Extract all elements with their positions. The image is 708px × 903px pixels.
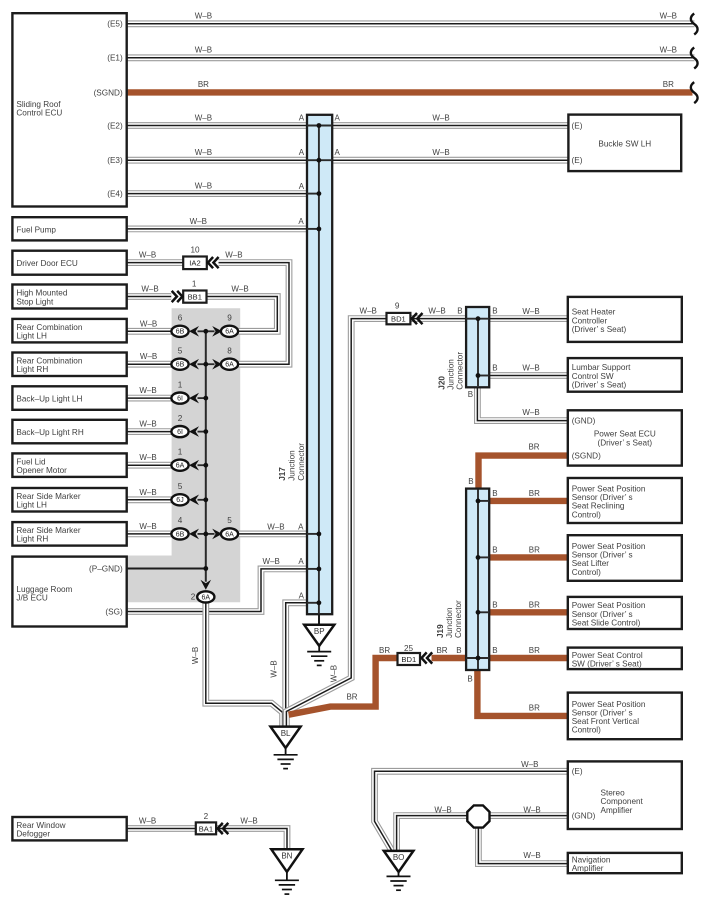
svg-text:A: A	[299, 591, 305, 600]
svg-text:(E4): (E4)	[107, 190, 123, 199]
svg-text:2: 2	[204, 812, 209, 821]
svg-text:Junction: Junction	[288, 450, 297, 481]
svg-text:(Driver’ s Seat): (Driver’ s Seat)	[572, 325, 627, 334]
svg-text:A: A	[298, 522, 304, 531]
svg-text:J17: J17	[278, 467, 287, 481]
svg-text:B: B	[457, 307, 462, 316]
svg-text:W–B: W–B	[523, 805, 540, 814]
svg-text:(Driver’ s Seat): (Driver’ s Seat)	[572, 380, 627, 389]
svg-text:W–B: W–B	[432, 148, 449, 157]
svg-text:6A: 6A	[225, 362, 234, 369]
svg-text:5: 5	[178, 482, 183, 491]
svg-text:(E2): (E2)	[107, 121, 123, 130]
svg-text:W–B: W–B	[140, 352, 157, 361]
svg-text:5: 5	[227, 516, 232, 525]
svg-text:Light RH: Light RH	[16, 535, 48, 544]
svg-text:W–B: W–B	[523, 851, 540, 860]
svg-text:9: 9	[395, 302, 400, 311]
svg-text:(E): (E)	[572, 156, 583, 165]
svg-text:W–B: W–B	[195, 12, 212, 21]
svg-text:B: B	[492, 546, 497, 555]
svg-text:6B: 6B	[176, 329, 185, 336]
svg-text:W–B: W–B	[191, 647, 200, 664]
svg-text:1: 1	[178, 447, 183, 456]
svg-text:W–B: W–B	[190, 217, 207, 226]
svg-text:SW (Driver’ s Seat): SW (Driver’ s Seat)	[572, 660, 642, 669]
svg-text:Fuel Pump: Fuel Pump	[16, 225, 56, 234]
svg-text:W–B: W–B	[195, 46, 212, 55]
svg-text:B: B	[468, 390, 473, 399]
svg-text:Connector: Connector	[297, 443, 306, 481]
svg-text:(P–GND): (P–GND)	[89, 564, 123, 573]
svg-text:Connector: Connector	[454, 600, 463, 638]
svg-text:W–B: W–B	[360, 306, 377, 315]
svg-text:Light RH: Light RH	[16, 365, 48, 374]
svg-text:(GND): (GND)	[572, 812, 596, 821]
svg-text:W–B: W–B	[195, 148, 212, 157]
svg-text:B: B	[492, 489, 497, 498]
svg-text:Seat Slide Control): Seat Slide Control)	[572, 619, 641, 628]
svg-text:6B: 6B	[176, 531, 185, 538]
svg-text:(E1): (E1)	[107, 54, 123, 63]
svg-text:W–B: W–B	[139, 251, 156, 260]
svg-text:B: B	[492, 307, 497, 316]
svg-text:Control): Control)	[572, 568, 601, 577]
svg-text:9: 9	[227, 314, 232, 323]
svg-text:Junction: Junction	[446, 359, 455, 390]
svg-text:W–B: W–B	[432, 114, 449, 123]
svg-text:A: A	[298, 217, 304, 226]
svg-text:J19: J19	[436, 624, 445, 638]
svg-text:W–B: W–B	[267, 522, 284, 531]
svg-text:A: A	[298, 557, 304, 566]
svg-text:IA2: IA2	[189, 259, 200, 268]
svg-text:Power Seat Position: Power Seat Position	[572, 601, 646, 610]
svg-text:BB1: BB1	[188, 293, 202, 302]
svg-text:Defogger: Defogger	[16, 830, 50, 839]
svg-text:BD1: BD1	[391, 315, 406, 324]
svg-text:Driver Door ECU: Driver Door ECU	[16, 259, 78, 268]
svg-text:6A: 6A	[225, 329, 234, 336]
svg-text:W–B: W–B	[269, 660, 278, 677]
svg-text:J20: J20	[437, 376, 446, 390]
svg-text:W–B: W–B	[434, 805, 451, 814]
svg-text:W–B: W–B	[521, 760, 538, 769]
svg-text:2: 2	[178, 414, 183, 423]
svg-text:W–B: W–B	[240, 817, 257, 826]
svg-text:Light LH: Light LH	[16, 331, 47, 340]
svg-text:A: A	[335, 114, 341, 123]
svg-text:Control ECU: Control ECU	[16, 109, 62, 118]
svg-text:(E): (E)	[572, 121, 583, 130]
svg-text:W–B: W–B	[660, 12, 677, 21]
svg-text:W–B: W–B	[195, 182, 212, 191]
svg-text:B: B	[492, 646, 497, 655]
svg-text:10: 10	[190, 245, 200, 254]
svg-text:BN: BN	[281, 852, 292, 861]
svg-text:W–B: W–B	[139, 522, 156, 531]
svg-text:BL: BL	[281, 729, 291, 738]
svg-text:6I: 6I	[177, 429, 183, 436]
svg-text:(Driver’ s Seat): (Driver’ s Seat)	[598, 438, 653, 447]
svg-text:2: 2	[191, 593, 196, 602]
svg-text:(GND): (GND)	[572, 417, 596, 426]
svg-text:B: B	[456, 646, 461, 655]
svg-text:BR: BR	[528, 443, 539, 452]
svg-text:BR: BR	[198, 80, 209, 89]
svg-text:6A: 6A	[225, 531, 234, 538]
svg-text:Light LH: Light LH	[16, 501, 47, 510]
svg-text:Connector: Connector	[456, 352, 465, 390]
svg-text:W–B: W–B	[140, 319, 157, 328]
svg-text:BR: BR	[379, 646, 390, 655]
svg-text:W–B: W–B	[522, 408, 539, 417]
svg-text:BR: BR	[436, 646, 447, 655]
svg-text:Rear Combination: Rear Combination	[16, 356, 82, 365]
svg-text:Back–Up Light RH: Back–Up Light RH	[16, 428, 83, 437]
svg-text:W–B: W–B	[522, 307, 539, 316]
svg-text:BR: BR	[346, 693, 357, 702]
svg-text:W–B: W–B	[660, 46, 677, 55]
svg-text:W–B: W–B	[225, 251, 242, 260]
svg-text:6: 6	[178, 314, 183, 323]
svg-text:Buckle SW LH: Buckle SW LH	[598, 139, 651, 148]
svg-text:W–B: W–B	[139, 453, 156, 462]
svg-text:W–B: W–B	[139, 420, 156, 429]
svg-text:W–B: W–B	[263, 557, 280, 566]
svg-text:W–B: W–B	[231, 285, 248, 294]
svg-text:W–B: W–B	[428, 306, 445, 315]
svg-text:1: 1	[178, 380, 183, 389]
svg-text:(SGND): (SGND)	[572, 452, 601, 461]
svg-text:Amplifier: Amplifier	[601, 806, 633, 815]
svg-text:W–B: W–B	[329, 665, 338, 682]
svg-text:BP: BP	[314, 627, 325, 636]
svg-text:J/B ECU: J/B ECU	[16, 594, 47, 603]
svg-text:W–B: W–B	[139, 488, 156, 497]
svg-text:B: B	[492, 364, 497, 373]
svg-text:B: B	[468, 477, 473, 486]
svg-text:BR: BR	[529, 601, 540, 610]
svg-text:A: A	[335, 148, 341, 157]
svg-text:BR: BR	[529, 546, 540, 555]
svg-text:Amplifier: Amplifier	[572, 864, 604, 873]
svg-text:Rear Side Marker: Rear Side Marker	[16, 492, 80, 501]
svg-text:W–B: W–B	[522, 364, 539, 373]
svg-text:(E3): (E3)	[107, 156, 123, 165]
svg-text:BR: BR	[529, 646, 540, 655]
svg-text:W–B: W–B	[139, 817, 156, 826]
svg-text:W–B: W–B	[195, 114, 212, 123]
svg-text:BA1: BA1	[199, 824, 213, 833]
svg-text:Stop Light: Stop Light	[16, 297, 54, 306]
svg-text:6B: 6B	[176, 362, 185, 369]
svg-text:(E5): (E5)	[107, 20, 123, 29]
svg-text:W–B: W–B	[141, 285, 158, 294]
svg-text:Opener Motor: Opener Motor	[16, 466, 67, 475]
svg-text:BR: BR	[529, 489, 540, 498]
svg-text:BO: BO	[393, 853, 405, 862]
svg-text:8: 8	[227, 346, 232, 355]
svg-text:4: 4	[178, 516, 183, 525]
svg-text:BR: BR	[663, 80, 674, 89]
svg-text:A: A	[299, 148, 305, 157]
svg-text:A: A	[299, 182, 305, 191]
svg-text:A: A	[299, 114, 305, 123]
svg-text:Power Seat ECU: Power Seat ECU	[594, 429, 656, 438]
svg-text:6A: 6A	[202, 594, 211, 601]
svg-text:1: 1	[192, 279, 197, 288]
svg-text:(SG): (SG)	[105, 607, 123, 616]
svg-text:Control): Control)	[572, 726, 601, 735]
svg-text:(SGND): (SGND)	[94, 88, 123, 97]
svg-text:Control): Control)	[572, 510, 601, 519]
svg-text:25: 25	[404, 644, 414, 653]
svg-text:W–B: W–B	[139, 386, 156, 395]
svg-text:Back–Up Light LH: Back–Up Light LH	[16, 395, 82, 404]
svg-text:BD1: BD1	[401, 655, 416, 664]
svg-text:6A: 6A	[176, 463, 185, 470]
svg-text:6J: 6J	[176, 497, 183, 504]
svg-text:5: 5	[178, 346, 183, 355]
svg-text:(E): (E)	[572, 767, 583, 776]
svg-text:BR: BR	[529, 704, 540, 713]
svg-text:B: B	[467, 675, 472, 684]
svg-text:B: B	[492, 601, 497, 610]
svg-text:6I: 6I	[177, 396, 183, 403]
